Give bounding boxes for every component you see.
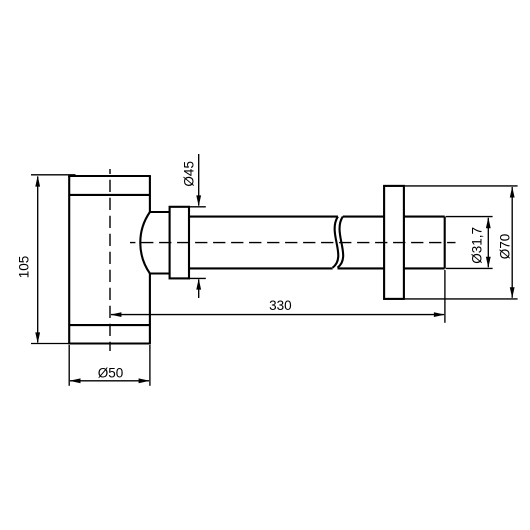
svg-text:Ø70: Ø70 <box>498 234 513 260</box>
svg-text:Ø50: Ø50 <box>98 365 124 380</box>
svg-text:105: 105 <box>16 256 31 279</box>
svg-text:Ø45: Ø45 <box>182 161 197 187</box>
svg-text:330: 330 <box>269 298 292 313</box>
svg-text:Ø31,7: Ø31,7 <box>470 227 485 264</box>
